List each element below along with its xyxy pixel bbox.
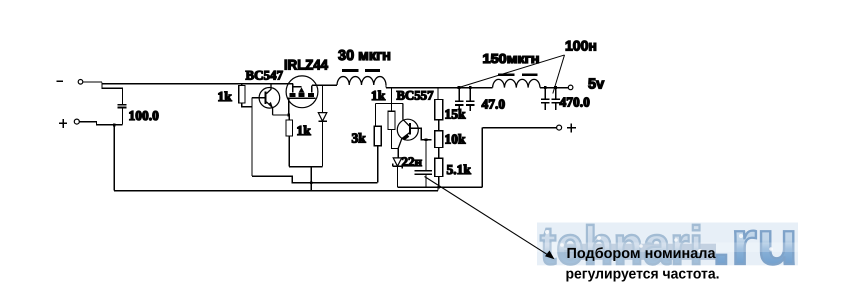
junction R7 bottom	[437, 186, 440, 189]
wire diode bottom lead	[322, 121, 324, 166]
wire cap C4 bottom lead	[425, 174, 427, 187]
wire Q1 emitter to gate node	[273, 114, 289, 116]
watermark band	[537, 223, 798, 266]
wire plus terminal to C1	[79, 122, 122, 125]
wire feedback from base node down	[252, 98, 378, 183]
wire C5b bottom lead	[469, 105, 471, 111]
wire top rail (negative)	[102, 83, 293, 84]
svg-text:100н: 100н	[565, 38, 597, 54]
wire C5a bottom lead	[458, 105, 460, 111]
svg-text:3k: 3k	[352, 131, 367, 146]
capacitor C6a 470.0	[541, 99, 550, 103]
svg-text:5v: 5v	[588, 77, 604, 93]
wire branch to capacitor C1	[102, 84, 123, 105]
transistor Q2 IRLZ44 mosfet	[286, 76, 318, 108]
svg-text:BC557: BC557	[397, 88, 435, 102]
wire gate lead	[288, 98, 290, 115]
svg-text:22н: 22н	[402, 154, 423, 169]
capacitor C1 100.0	[117, 105, 126, 108]
resistor R3 1k	[388, 111, 395, 129]
wire R5 to R6	[438, 120, 440, 131]
inductor L1 30 mkgn	[337, 77, 386, 85]
wire bottom rail	[114, 190, 438, 192]
wire zener top lead	[397, 148, 399, 158]
wire R7 bottom lead	[438, 177, 440, 188]
junction C5a	[458, 86, 461, 89]
svg-text:5.1k: 5.1k	[447, 162, 472, 177]
arrowhead annotation pointer	[545, 251, 555, 260]
wire cap C5a top lead	[458, 88, 460, 101]
capacitor C5a 47.0	[455, 101, 464, 105]
junction feedback crossing	[310, 181, 313, 184]
capacitor C6b 100n	[551, 99, 560, 103]
wire annotation pointer line	[425, 177, 553, 258]
svg-text:30 мкгн: 30 мкгн	[338, 48, 391, 64]
wire R6 to R7	[438, 148, 440, 159]
wire R1 bottom to base node	[242, 103, 252, 107]
wire C1 bottom lead	[121, 108, 123, 125]
svg-text:15k: 15k	[445, 107, 467, 122]
capacitor C5b 100n	[466, 101, 475, 105]
watermark sparkles	[545, 230, 773, 253]
svg-text:1k: 1k	[297, 123, 312, 138]
svg-text:регулируется частота.: регулируется частота.	[566, 266, 720, 282]
node output terminal 5v	[568, 85, 573, 90]
svg-text:150мкгн: 150мкгн	[483, 51, 540, 66]
svg-text:47.0: 47.0	[482, 97, 506, 112]
transistor Q1 BC547	[259, 84, 280, 115]
svg-text:IRLZ44: IRLZ44	[284, 57, 328, 73]
zener VD1 22n	[393, 158, 403, 169]
diode D1	[318, 113, 327, 122]
wire L2 to output terminal	[540, 87, 568, 89]
junction Q3 base to cap	[425, 138, 428, 141]
wire R2 top lead	[288, 115, 290, 120]
resistor R5 15k	[435, 99, 443, 119]
wire pointer 100n to C5	[459, 55, 564, 87]
svg-text:1k: 1k	[371, 88, 386, 103]
junction gate node	[287, 114, 290, 117]
junction plus rail	[113, 124, 116, 127]
plus output sign	[567, 123, 576, 132]
wire cap C5b top lead	[469, 88, 471, 101]
wire bottom output net	[398, 128, 483, 191]
wire cap C6b top lead	[555, 88, 557, 99]
wire bottom box to diode	[289, 166, 322, 168]
wire R1 top lead	[241, 84, 243, 86]
inductor L2 150 mkgn	[493, 79, 540, 87]
svg-text:BC547: BC547	[246, 68, 284, 83]
minus polarity sign	[56, 80, 63, 82]
wire C6a bottom lead	[544, 103, 546, 110]
wire diode top lead	[322, 85, 324, 112]
plus polarity sign	[59, 119, 67, 128]
wire C6b bottom lead	[555, 103, 557, 110]
svg-text:470.0: 470.0	[560, 95, 591, 110]
wire cap C4 top lead	[425, 140, 427, 171]
junction C5b	[469, 86, 472, 89]
wire pointer 100n to C6	[553, 55, 565, 94]
transistor Q3 BC557	[397, 103, 431, 148]
wire zener bottom lead	[397, 166, 399, 187]
wire top net corner to R5	[437, 88, 439, 100]
svg-text:10k: 10k	[445, 132, 467, 147]
wire tee to R4	[376, 103, 403, 126]
junction C6a	[544, 86, 547, 89]
node minus input terminal	[78, 80, 83, 85]
wire L1 right to top net	[386, 85, 493, 88]
svg-text:Подбором номинала: Подбором номинала	[567, 246, 717, 262]
junction C6b	[554, 86, 557, 89]
wire branch to R3	[390, 88, 392, 112]
wire R2 bottom lead	[288, 136, 290, 167]
wire drain rail to inductor	[312, 84, 337, 86]
wire R3 bottom jog to zener node	[391, 130, 398, 149]
selection highlight	[565, 244, 717, 260]
resistor R1 1k	[239, 86, 245, 104]
wire base of Q1	[252, 97, 265, 99]
inductor L2 core bars	[498, 73, 537, 76]
part label BC557	[395, 88, 436, 102]
wire minus terminal to rail	[83, 81, 102, 83]
svg-text:1k: 1k	[218, 89, 233, 104]
wire cap C6a top lead	[544, 88, 546, 99]
svg-text:100.0: 100.0	[129, 108, 160, 123]
resistor R2 1k gate pulldown	[286, 120, 293, 136]
resistor R7 5.1k	[435, 158, 443, 176]
watermark gloss	[537, 243, 798, 253]
resistor R4 3k	[374, 126, 381, 146]
node plus input terminal	[74, 119, 79, 124]
wire plus terminal lead	[482, 127, 556, 129]
resistor R6 10k	[435, 131, 443, 148]
inductor L1 core bars	[342, 69, 380, 72]
wire plus rail drop	[113, 125, 115, 191]
wire source drop to bottom rail	[310, 167, 312, 191]
node output plus terminal	[557, 125, 562, 130]
capacitor C4	[415, 171, 433, 174]
